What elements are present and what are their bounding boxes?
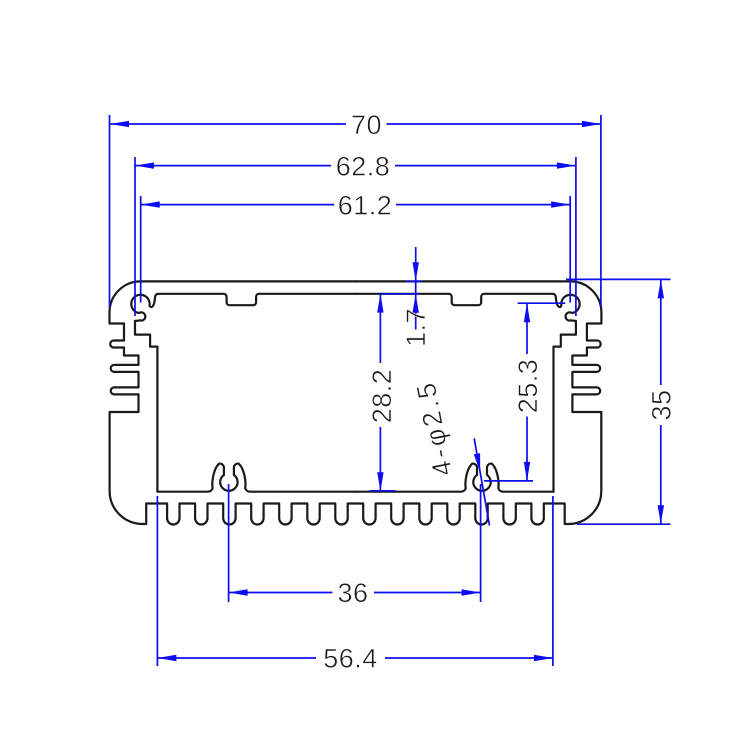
svg-text:61.2: 61.2 [338, 191, 393, 221]
svg-text:56.4: 56.4 [323, 644, 378, 674]
svg-text:28.2: 28.2 [367, 369, 397, 424]
extrusion inner cavity (left half: lid recess notch, corner screw boss, wall steps, floor, bottom screw boss) [131, 294, 355, 492]
svg-text:70: 70 [351, 110, 382, 140]
dimension 25.3: corner boss center to bottom boss center [484, 303, 565, 481]
dimension 62.8: width across inner corner walls [135, 157, 576, 316]
dimension 36: distance between bottom screw-boss centers [229, 484, 481, 602]
extrusion outer profile (left half: lid, rounded corners, side fins, bottom comb fins) [110, 281, 356, 524]
dimension 56.4: cavity inner width [157, 496, 553, 666]
leader line and arrow for 4-φ2.5 screw holes [474, 438, 489, 525]
dimension 35: overall height [566, 279, 671, 524]
svg-text:35: 35 [647, 389, 677, 420]
svg-text:25.3: 25.3 [513, 359, 543, 414]
extrusion outer profile (right half, mirrored) [355, 281, 601, 524]
extrusion inner cavity (right half, mirrored) [355, 294, 579, 492]
svg-text:4-φ2.5: 4-φ2.5 [410, 378, 458, 479]
svg-text:36: 36 [337, 578, 368, 608]
dimension 70: overall width, extension lines, dim line, arrowheads [110, 115, 601, 307]
dimension 1.7: lid wall thickness, outside arrows and ticks [381, 247, 422, 330]
dimension 61.2: distance between corner screw-boss centers [141, 196, 571, 303]
dimension 28.2: cavity inner height [370, 294, 396, 492]
svg-text:1.7: 1.7 [401, 308, 431, 347]
svg-text:62.8: 62.8 [336, 152, 391, 182]
